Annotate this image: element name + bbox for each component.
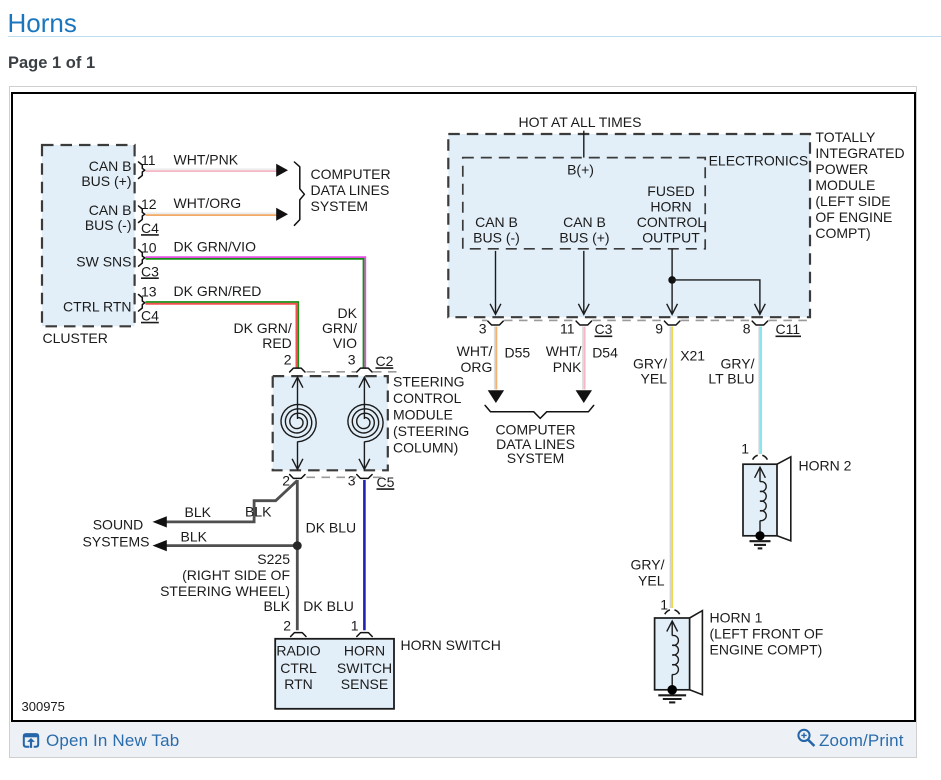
horn 1 inline connector arc bbox=[665, 610, 680, 614]
wire label WHT/ ORG bbox=[457, 343, 493, 375]
TIPM connector brace pin 3 bbox=[488, 321, 503, 325]
wire BLK diagonal branch to sound systems bbox=[166, 481, 297, 522]
computer data lines underbrace bbox=[485, 405, 594, 418]
TIPM label bbox=[815, 129, 904, 241]
SCM connector brace bottom pin 2 bbox=[290, 475, 305, 479]
TIPM connector brace pin 8 bbox=[752, 321, 767, 325]
wire WHT/ORG pin 3 bbox=[495, 327, 497, 390]
data line arrow 1 bbox=[276, 164, 288, 177]
connector label C11 bbox=[776, 321, 802, 337]
wire WHT/PNK pin 11 bbox=[146, 169, 278, 171]
computer data lines brace bbox=[294, 162, 304, 225]
horn 2 flare bbox=[777, 457, 791, 541]
TIPM internal line CAN B BUS (+) bbox=[578, 251, 589, 314]
wire label GRY/ YEL (lower) bbox=[631, 557, 665, 589]
connector label C4 bbox=[141, 308, 159, 324]
horn 2 inline connector arc bbox=[753, 455, 768, 459]
steering control module label bbox=[393, 374, 469, 456]
horn 1 body box bbox=[655, 618, 690, 690]
sound systems arrow 2 bbox=[153, 540, 167, 551]
wire WHT/PNK pin 11 bbox=[583, 327, 585, 390]
wire DK GRN/RED pin 13 to SCM pin 2 bbox=[146, 302, 299, 369]
connector brace pin 11 bbox=[139, 162, 145, 179]
steering control module box bbox=[273, 376, 388, 470]
splice S225 wire to sound systems bbox=[166, 544, 294, 547]
wire GRY/LT BLU pin 8 to horn 2 bbox=[759, 327, 761, 455]
B(+) feed line bbox=[583, 131, 585, 158]
SCM connector brace top pin 2 bbox=[290, 368, 305, 372]
wire WHT/ORG pin 12 bbox=[146, 213, 278, 215]
cluster module box bbox=[42, 145, 135, 326]
CAN B BUS (-) internal label bbox=[473, 214, 520, 246]
horn 2 ground symbol bbox=[750, 541, 771, 548]
horn 1 ground dot bbox=[667, 685, 677, 695]
horn 1 flare bbox=[690, 611, 703, 695]
horn 2 coil element bbox=[755, 467, 767, 532]
wire label GRY/ YEL (upper) bbox=[633, 355, 667, 386]
splice S225 junction dot bbox=[293, 541, 302, 550]
TIPM outer box bbox=[448, 134, 810, 317]
TIPM internal line fused horn control output bbox=[667, 249, 678, 314]
wire DK GRN/VIO pin 10 to SCM pin 3 bbox=[146, 257, 366, 369]
TIPM connector brace pin 11 bbox=[576, 321, 591, 325]
horn switch connector brace pin 1 bbox=[357, 633, 372, 637]
TIPM internal line CAN B BUS (-) bbox=[490, 251, 501, 314]
horn 1 label bbox=[710, 610, 824, 658]
wire DK BLU from SCM pin 3 to horn switch pin 1 bbox=[363, 480, 366, 630]
connector dashed line C2 bbox=[307, 371, 400, 373]
CAN B BUS (+) internal label bbox=[559, 214, 609, 246]
connector label C3 bbox=[141, 263, 159, 279]
wire BLK from SCM pin 2 down to splice and horn switch bbox=[296, 480, 299, 630]
TIPM connector dashed line bbox=[482, 319, 812, 321]
cluster pin CAN B BUS (+) label bbox=[81, 158, 131, 189]
horn switch HORN SWITCH SENSE label bbox=[337, 643, 392, 693]
connector label C4 bbox=[141, 220, 159, 236]
connector brace pin 12 bbox=[139, 206, 145, 223]
cluster pin CAN B BUS (-) label bbox=[85, 202, 132, 233]
horn switch RADIO CTRL RTN label bbox=[276, 643, 320, 693]
data arrow WHT/PNK bbox=[576, 390, 592, 403]
TIPM internal branch to pin 8 bbox=[672, 280, 765, 314]
TIPM internal junction dot bbox=[668, 276, 676, 284]
horn switch connector brace pin 2 bbox=[291, 633, 306, 637]
vertical wire label DK GRN/ VIO bbox=[322, 305, 358, 351]
sound systems label bbox=[83, 516, 150, 549]
clockspring coil right bbox=[348, 377, 383, 469]
clockspring coil left bbox=[281, 377, 316, 469]
horn 2 ground dot bbox=[755, 531, 764, 540]
data line arrow 2 bbox=[276, 208, 288, 221]
computer data lines system label (left) bbox=[311, 166, 391, 214]
horn 2 body box bbox=[743, 464, 777, 536]
connector label C2 bbox=[376, 353, 394, 369]
wire label GRY/ LT BLU bbox=[708, 355, 754, 386]
connector brace pin 13 bbox=[139, 295, 145, 312]
connector dashed line C5 bbox=[307, 476, 383, 478]
horn 1 coil element bbox=[667, 621, 679, 686]
splice S225 label bbox=[160, 551, 290, 599]
SCM connector brace bottom pin 3 bbox=[357, 475, 372, 479]
data arrow WHT/ORG bbox=[488, 390, 504, 403]
wire GRY/YEL pin 9 to horn 1 bbox=[671, 327, 673, 609]
wire label WHT/ PNK bbox=[546, 343, 582, 375]
fused horn control output label bbox=[637, 183, 706, 246]
connector label C3 bbox=[595, 321, 613, 337]
vertical wire label DK GRN/ RED bbox=[233, 320, 291, 351]
connector brace pin 10 bbox=[139, 250, 145, 267]
TIPM connector brace pin 9 bbox=[664, 321, 679, 325]
SCM connector brace top pin 3 bbox=[357, 368, 372, 372]
connector label C5 bbox=[377, 474, 395, 490]
sound systems arrow 1 bbox=[153, 516, 167, 527]
horn switch box bbox=[275, 639, 394, 709]
computer data lines system label (bottom) bbox=[495, 422, 575, 466]
TIPM electronics inner box bbox=[463, 158, 705, 249]
horn 1 ground symbol bbox=[658, 695, 686, 702]
